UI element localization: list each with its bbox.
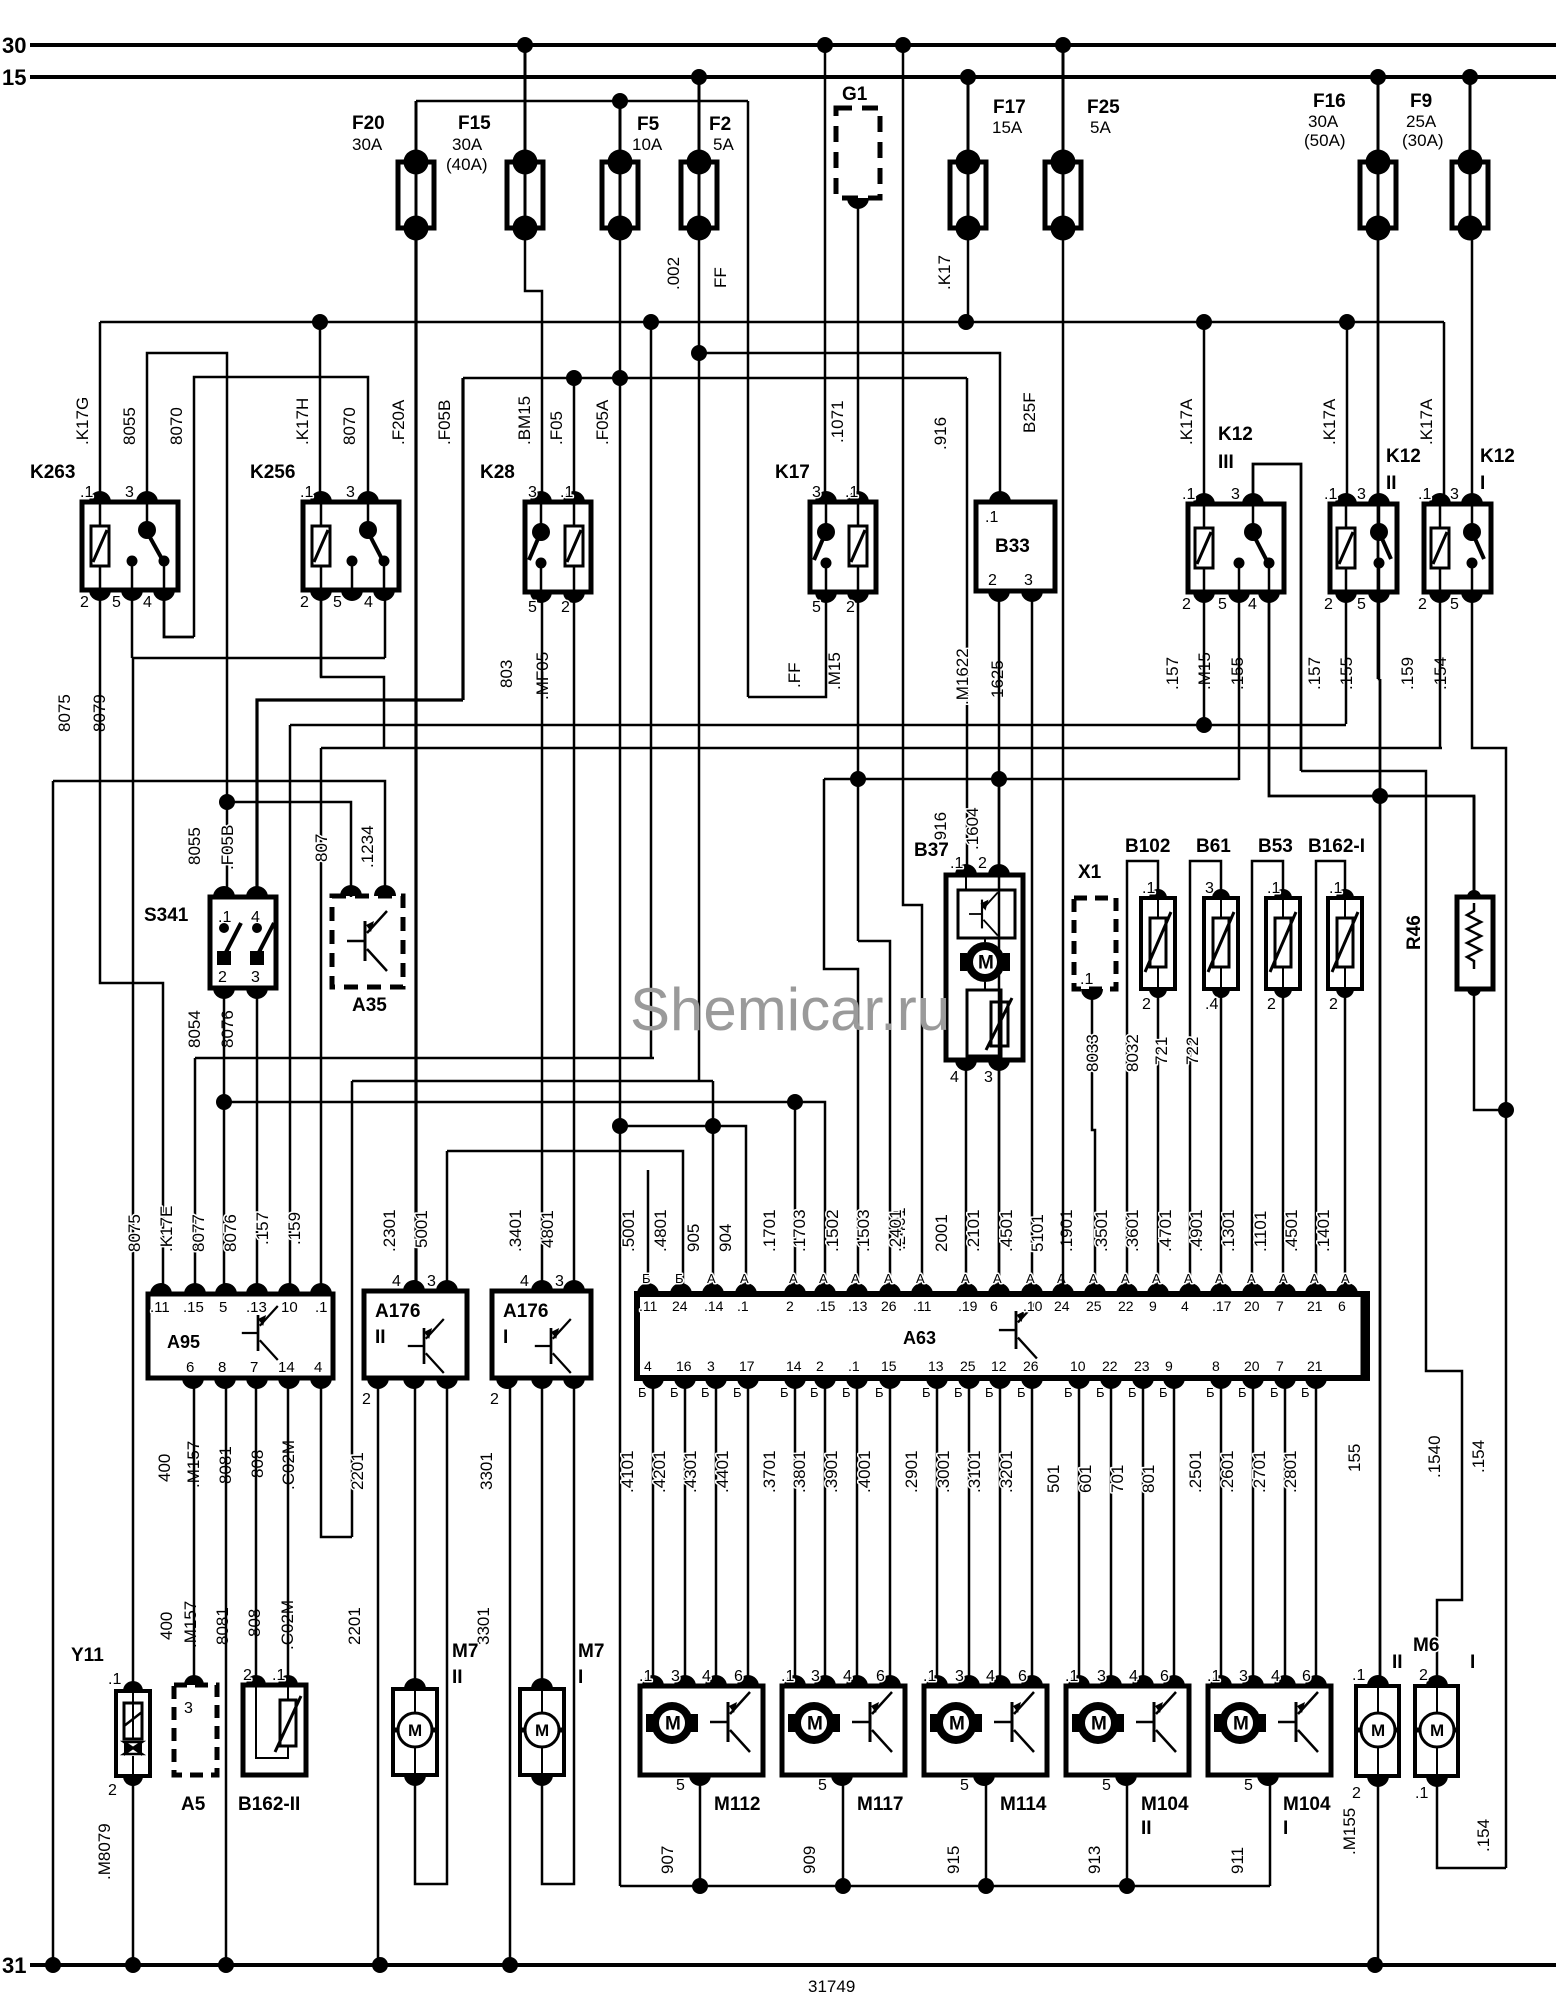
wire 903 to A63 pin 11A .2401 [903,45,922,1287]
svg-text:A: A [884,1271,893,1286]
sensor B61 [1190,861,1221,1287]
control unit A35 [332,896,403,987]
wire F05B thick [461,378,464,700]
junction bus30 [517,37,533,53]
wire 911 [1269,1779,1272,1886]
rail 002 F2 to B33 pin1 [699,353,1000,502]
svg-text:K17: K17 [775,462,810,483]
svg-text:M: M [978,953,994,974]
svg-text:3: 3 [528,484,537,501]
svg-text:A: A [993,1271,1002,1286]
relay K12 II [1330,504,1397,592]
wire G1 to K17 pin1 .1071 [857,202,860,502]
rail 159 y748 [321,747,1442,750]
svg-text:A: A [789,1271,798,1286]
svg-text:Б: Б [875,1385,884,1400]
svg-text:.4301: .4301 [681,1450,700,1493]
svg-text:F16: F16 [1313,91,1346,112]
svg-text:F17: F17 [993,97,1026,118]
wire A176II pin loop M7II bottom [415,1382,447,1884]
svg-text:400: 400 [157,1612,176,1640]
rail 8055 K263pin3 to S341 pin1 [147,353,227,897]
svg-text:.15: .15 [816,1298,836,1314]
svg-text:I: I [1470,1652,1475,1673]
svg-text:5001: 5001 [412,1210,431,1248]
svg-text:M: M [1371,1721,1385,1740]
svg-text:.M155: .M155 [1340,1808,1359,1855]
svg-text:.1: .1 [1182,486,1195,503]
svg-text:.FF: .FF [785,663,804,689]
svg-text:8077: 8077 [189,1214,208,1252]
junction rail K17A [1196,314,1212,330]
wire B25F F25 to A63 24A [1062,228,1065,1287]
junction bus31 [125,1957,141,1973]
wire to K263 pin1 K17G [99,322,102,502]
svg-text:155: 155 [1345,1444,1364,1472]
wire A63 to M104II [1110,1382,1113,1686]
motor M117 [782,1686,905,1775]
svg-text:.F05B: .F05B [435,400,454,445]
wire F15 top [524,45,527,162]
svg-text:.11: .11 [639,1298,658,1314]
svg-text:Б: Б [1064,1385,1073,1400]
svg-text:Б: Б [1128,1385,1137,1400]
svg-text:5: 5 [1450,596,1459,613]
svg-text:4: 4 [843,1668,852,1685]
svg-text:A5: A5 [181,1794,206,1815]
svg-text:.4901: .4901 [1187,1209,1206,1252]
junction bus15 [1462,69,1478,85]
svg-text:4: 4 [644,1358,652,1374]
wire 8076 S341 pin3 to A95 pin13 [256,988,259,1287]
svg-text:Y11: Y11 [71,1645,104,1666]
svg-text:2001: 2001 [932,1214,951,1252]
svg-text:25: 25 [1086,1298,1102,1314]
svg-text:12: 12 [991,1358,1007,1374]
wire 1540 K12III pin3 to M6I [1301,771,1462,1682]
svg-text:2: 2 [1352,1785,1361,1802]
junction F05 [566,370,582,386]
wire A63 to M117 [824,1382,827,1686]
svg-text:7: 7 [250,1359,258,1376]
svg-text:904: 904 [716,1224,735,1252]
svg-text:8075: 8075 [55,694,74,732]
svg-text:.1604: .1604 [963,807,982,850]
wire F05B dogleg to S341 pin4 [257,700,463,897]
svg-text:6: 6 [1302,1668,1311,1685]
svg-text:.3501: .3501 [1092,1209,1111,1252]
svg-text:A: A [1089,1271,1098,1286]
control unit A63 [637,1294,1367,1378]
svg-text:.19: .19 [958,1298,978,1314]
svg-text:.K17A: .K17A [1417,398,1436,445]
svg-text:.K17: .K17 [935,255,954,290]
svg-text:A: A [1152,1271,1161,1286]
svg-text:.159: .159 [285,1212,304,1245]
svg-text:3: 3 [427,1273,436,1290]
svg-text:A: A [851,1271,860,1286]
relay K17 [810,502,876,592]
svg-text:8055: 8055 [185,827,204,865]
rail 8079-K256pin4 y658 [132,657,385,660]
svg-text:A: A [1341,1271,1350,1286]
svg-text:911: 911 [1228,1847,1247,1874]
svg-text:907: 907 [658,1846,677,1874]
svg-text:2: 2 [1419,1667,1428,1684]
junction F5 top [612,93,628,109]
svg-text:I: I [503,1327,508,1348]
svg-text:.1: .1 [1329,880,1342,897]
svg-text:8: 8 [1212,1358,1220,1374]
svg-text:3: 3 [1024,572,1033,589]
svg-text:A95: A95 [167,1332,200,1352]
svg-text:FF: FF [711,267,730,288]
junction bus15 [691,69,707,85]
svg-text:M: M [807,1714,823,1735]
svg-text:6: 6 [876,1668,885,1685]
junction bus31 [218,1957,234,1973]
svg-text:.1: .1 [300,484,313,501]
wire K17 pin5 to FF [748,594,826,697]
svg-text:.916: .916 [931,417,950,450]
svg-text:20: 20 [1244,1298,1260,1314]
wire F15 to K28 pin3 BM15 [525,228,542,502]
svg-text:.K17E: .K17E [157,1206,176,1252]
wire 808 A95 pin14 to B162II pin1 [287,1382,290,1681]
relay K12 III [1188,504,1284,592]
svg-text:.1: .1 [80,484,93,501]
svg-text:.M15: .M15 [825,652,844,690]
svg-text:8054: 8054 [185,1010,204,1048]
svg-text:2: 2 [978,855,987,872]
rail 8055-A35 y802 [227,802,351,897]
svg-text:.1: .1 [560,484,573,501]
wire F05A long down [619,378,622,1886]
svg-text:4: 4 [950,1069,959,1086]
rail K17A y322 [100,321,1444,324]
svg-text:.154: .154 [1469,1440,1488,1473]
svg-text:4: 4 [1129,1668,1138,1685]
svg-text:3: 3 [1205,880,1214,897]
wire K12III pin2 to rail157 [1203,592,1206,725]
wire 8033 X1 to A63 pin25A [1092,993,1095,1287]
wire C02M A95 pin4 to 002 net [321,1382,352,1537]
wire to K256 pin1 K17H [319,322,322,502]
svg-text:K12: K12 [1218,424,1253,445]
svg-text:K263: K263 [30,462,75,483]
svg-text:.1: .1 [1065,1668,1078,1685]
svg-text:22: 22 [1118,1298,1134,1314]
svg-text:.11: .11 [150,1299,170,1316]
svg-text:.155: .155 [1228,657,1247,690]
svg-text:3: 3 [125,484,134,501]
wire left ground 53 [52,781,55,1965]
relay K12 I [1424,504,1491,592]
svg-text:.M157: .M157 [181,1601,200,1648]
svg-text:.BM15: .BM15 [515,396,534,445]
svg-text:.1: .1 [985,509,998,526]
wire 909 [842,1779,845,1886]
svg-text:.3801: .3801 [790,1450,809,1493]
svg-text:B25F: B25F [1020,392,1039,433]
wire F2 top [698,77,701,162]
svg-text:2: 2 [243,1667,252,1684]
svg-text:A63: A63 [903,1328,936,1348]
svg-text:Б: Б [985,1385,994,1400]
svg-text:5: 5 [676,1777,685,1794]
wire A63 to M114 [968,1382,971,1686]
svg-text:.K17A: .K17A [1177,398,1196,445]
wire 916 to B37 pin1 [966,378,969,875]
svg-text:2: 2 [816,1358,824,1374]
wire 5001 to A176II pin3 [446,1151,449,1291]
svg-text:A176: A176 [503,1301,548,1322]
svg-text:M112: M112 [714,1794,760,1815]
svg-text:3: 3 [955,1668,964,1685]
svg-text:B162-I: B162-I [1308,836,1365,857]
svg-text:A: A [916,1271,925,1286]
svg-text:2: 2 [1267,996,1276,1013]
svg-text:601: 601 [1076,1465,1095,1493]
wire to K12II pin1 K17A [1346,322,1349,504]
svg-text:.3401: .3401 [506,1209,525,1252]
svg-text:.13: .13 [246,1299,267,1316]
wire FF vertical [747,101,750,697]
svg-text:5: 5 [1218,596,1227,613]
sensor B162-I [1316,861,1345,1287]
svg-text:16: 16 [676,1358,692,1374]
svg-text:.1234: .1234 [358,825,377,868]
svg-text:M117: M117 [857,1794,903,1815]
svg-text:.4801: .4801 [651,1209,670,1252]
junction bus30 [1055,37,1071,53]
svg-text:.2401: .2401 [886,1209,905,1252]
svg-text:.2901: .2901 [902,1450,921,1493]
svg-text:5A: 5A [713,135,734,154]
svg-text:.F05: .F05 [547,411,566,445]
svg-text:B61: B61 [1196,836,1231,857]
junction bus30 [895,37,911,53]
svg-text:Shemicar.ru: Shemicar.ru [630,976,950,1043]
svg-text:8055: 8055 [120,407,139,445]
svg-text:.14: .14 [704,1298,724,1314]
svg-text:.3201: .3201 [997,1450,1016,1493]
rail 8070 to K256 pin3 [194,377,368,637]
svg-text:6: 6 [1018,1668,1027,1685]
svg-text:4801: 4801 [538,1210,557,1248]
sensor B33 [976,502,1055,591]
svg-text:.1: .1 [639,1668,652,1685]
junction rail K17A [1339,314,1355,330]
wire A176I loop M7I bottom [542,1382,574,1884]
svg-text:Б: Б [1301,1385,1310,1400]
svg-text:.10: .10 [1023,1298,1043,1314]
svg-text:A35: A35 [352,995,387,1016]
svg-text:M7: M7 [578,1641,604,1662]
svg-text:2: 2 [108,1782,117,1799]
svg-text:808: 808 [248,1450,267,1478]
svg-text:.2101: .2101 [964,1209,983,1252]
svg-text:.F20A: .F20A [389,399,408,445]
svg-text:R46: R46 [1404,915,1425,950]
svg-text:24: 24 [1054,1298,1070,1314]
switch S341 [210,897,276,988]
wire A176II to M7II top [414,1382,417,1682]
svg-text:5: 5 [1102,1777,1111,1794]
svg-text:8076: 8076 [218,1010,237,1048]
relay K263 [82,502,178,590]
wire A63 to M112 [684,1382,687,1686]
svg-text:Б: Б [810,1385,819,1400]
svg-text:6: 6 [734,1668,743,1685]
svg-text:22: 22 [1102,1358,1118,1374]
svg-text:3: 3 [1450,486,1459,503]
junction bus15 [960,69,976,85]
wire R46 bottom to 154 [1474,989,1506,1110]
svg-text:.4401: .4401 [713,1450,732,1493]
sensor B162-II [243,1685,306,1775]
svg-text:5: 5 [818,1777,827,1794]
rail K17E y1058 [195,1057,654,1060]
svg-text:3: 3 [671,1668,680,1685]
svg-text:3: 3 [346,484,355,501]
svg-text:.1: .1 [1080,971,1093,988]
svg-text:701: 701 [1108,1465,1127,1493]
svg-text:5: 5 [333,594,342,611]
svg-text:2: 2 [300,594,309,611]
wire 915 [985,1779,988,1886]
svg-text:B33: B33 [995,536,1030,557]
svg-text:A: A [1057,1271,1066,1286]
svg-text:.1540: .1540 [1425,1435,1444,1478]
svg-text:.M8079: .M8079 [95,1823,114,1880]
svg-text:.11: .11 [913,1298,932,1314]
wire K256 pin4 stub [384,592,387,658]
control unit A176 I [492,1291,591,1378]
svg-text:Б: Б [922,1385,931,1400]
svg-text:Б: Б [670,1385,679,1400]
svg-text:M: M [535,1721,549,1740]
wire A63 to M112 [715,1382,718,1686]
svg-text:7: 7 [1276,1358,1284,1374]
svg-text:A: A [1121,1271,1130,1286]
svg-text:24: 24 [672,1298,688,1314]
junction bus31 [45,1957,61,1973]
svg-text:M: M [1430,1721,1444,1740]
wire A63 to M112 [747,1382,750,1686]
svg-text:14: 14 [786,1358,802,1374]
svg-text:Б: Б [733,1385,742,1400]
svg-text:8076: 8076 [221,1214,240,1252]
svg-text:M114: M114 [1000,1794,1047,1815]
wire 155 F16 to M6II [1379,679,1382,1682]
svg-text:5: 5 [812,599,821,616]
svg-text:501: 501 [1044,1465,1063,1493]
svg-text:2: 2 [1182,596,1191,613]
svg-text:.1071: .1071 [828,400,847,443]
svg-text:4: 4 [986,1668,995,1685]
rail 4801 y1151 [447,1151,683,1287]
svg-text:721: 721 [1152,1037,1171,1065]
wire 8075 K263 pin2 to A95 pin11 [100,592,163,1287]
svg-text:.1703: .1703 [790,1209,809,1252]
svg-text:2: 2 [362,1391,371,1408]
svg-text:Б: Б [842,1385,851,1400]
wire K12III pin4 155 to R46 [1269,592,1474,897]
svg-text:.1503: .1503 [854,1209,873,1252]
wire A63 to M104I [1315,1382,1318,1686]
wire K263 pin4 loop [164,590,194,637]
junction rail K17A [958,314,974,330]
svg-text:II: II [452,1667,463,1688]
wire M157 A95 pin8 to bus31 [225,1382,228,1965]
svg-text:909: 909 [800,1846,819,1874]
svg-text:26: 26 [1023,1358,1039,1374]
svg-text:(50A): (50A) [1304,131,1346,150]
svg-text:2: 2 [1324,596,1333,613]
svg-text:M7: M7 [452,1641,478,1662]
svg-text:31749: 31749 [808,1977,855,1996]
svg-text:(30A): (30A) [1402,131,1444,150]
svg-text:6: 6 [186,1359,194,1376]
svg-text:.1101: .1101 [1251,1211,1270,1252]
svg-text:Б: Б [638,1385,647,1400]
svg-text:2: 2 [218,969,227,986]
svg-text:4: 4 [392,1273,401,1290]
svg-text:8070: 8070 [167,407,186,445]
svg-text:2: 2 [988,572,997,589]
wire 8079 down to Y11 [132,658,135,1687]
svg-text:913: 913 [1085,1846,1104,1874]
svg-text:.1701: .1701 [760,1209,779,1252]
svg-text:.2701: .2701 [1250,1450,1269,1493]
svg-text:.1: .1 [781,1668,794,1685]
svg-text:B102: B102 [1125,836,1170,857]
svg-text:2: 2 [1418,596,1427,613]
svg-text:.1: .1 [848,1358,860,1374]
wire K12III pin5 M15 [1238,592,1241,780]
wire 8081 A95 pin7 to B162II pin2 [255,1382,258,1681]
wire K12III pin3 bypass [1253,464,1301,771]
wire 400 A95 pin6 to A5 [193,1382,196,1681]
junction 1701 [787,1094,803,1110]
svg-text:915: 915 [944,1846,963,1874]
svg-text:Б: Б [1096,1385,1105,1400]
svg-text:A: A [1279,1271,1288,1286]
wire A63 to M117 [889,1382,892,1686]
rail F20-F5-FF y101 [416,100,748,103]
svg-text:17: 17 [739,1358,755,1374]
svg-text:15: 15 [2,65,26,90]
svg-text:.2601: .2601 [1218,1450,1237,1493]
svg-text:2: 2 [490,1391,499,1408]
svg-text:8075: 8075 [125,1214,144,1252]
svg-text:Б: Б [1238,1385,1247,1400]
svg-text:A: A [819,1271,828,1286]
svg-text:15A: 15A [992,118,1023,137]
sensor B53 [1252,861,1283,1287]
wire A63 to M104II [1078,1382,1081,1686]
svg-text:722: 722 [1183,1037,1202,1065]
svg-text:4: 4 [364,594,373,611]
svg-text:3: 3 [555,1273,564,1290]
svg-text:.159: .159 [1398,657,1417,690]
wire F16 top [1377,77,1380,162]
wire A63 to M112 [652,1382,655,1686]
svg-text:Б: Б [701,1385,710,1400]
svg-text:F9: F9 [1410,91,1432,112]
svg-text:2: 2 [846,599,855,616]
